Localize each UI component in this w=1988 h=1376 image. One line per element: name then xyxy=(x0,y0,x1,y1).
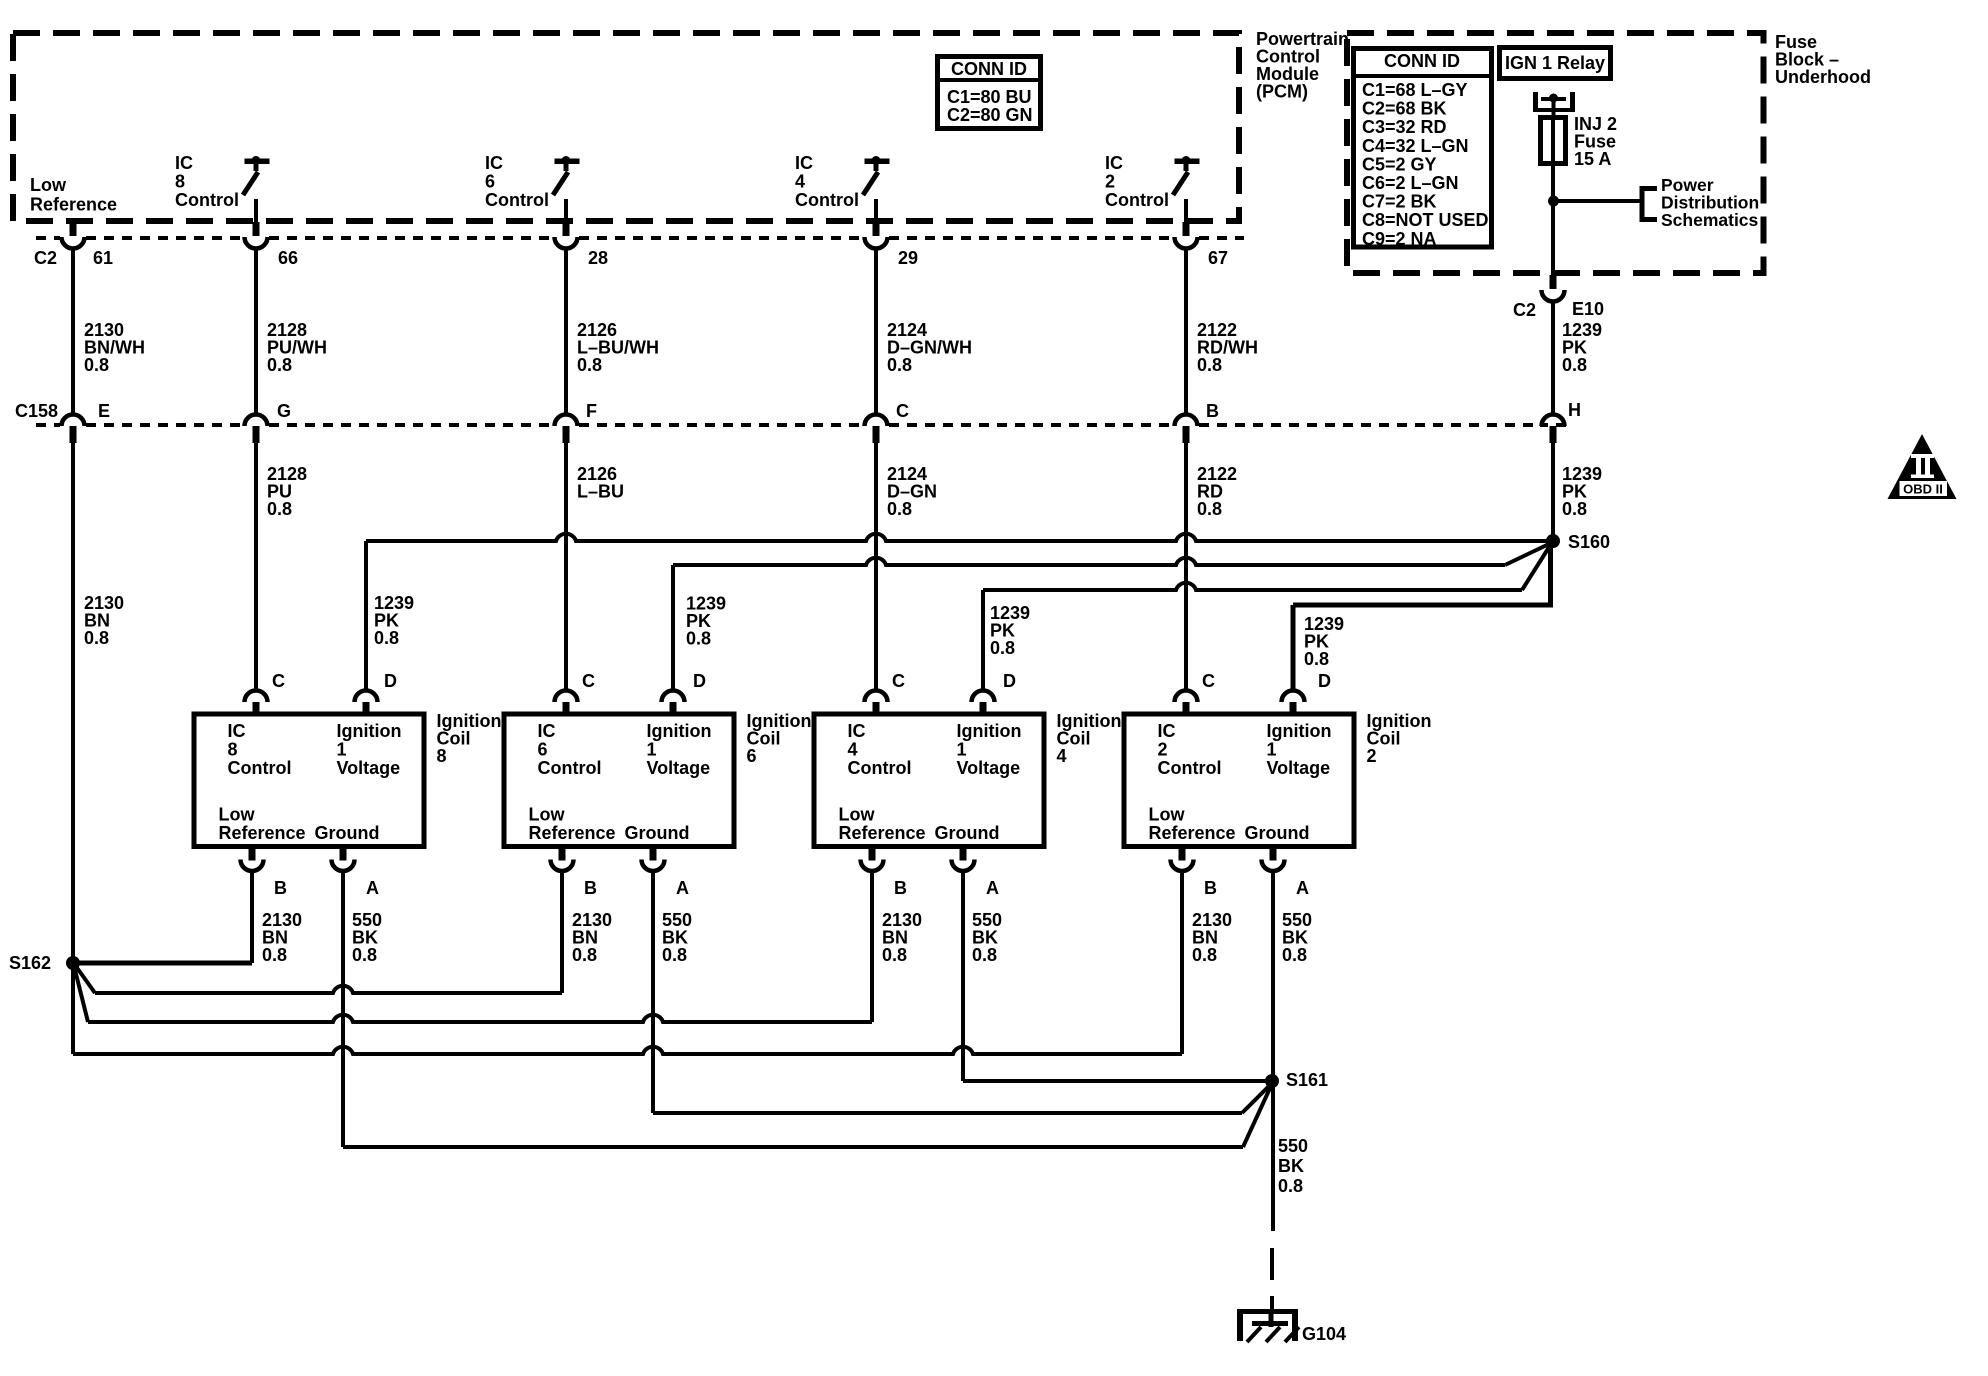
svg-text:IC: IC xyxy=(1105,153,1123,173)
svg-text:S160: S160 xyxy=(1568,532,1610,552)
svg-text:Ground: Ground xyxy=(935,823,1000,843)
svg-text:S162: S162 xyxy=(9,953,51,973)
svg-text:IC: IC xyxy=(485,153,503,173)
svg-text:Ignition: Ignition xyxy=(957,721,1022,741)
svg-text:0.8: 0.8 xyxy=(1197,499,1222,519)
svg-text:6: 6 xyxy=(538,740,548,760)
svg-text:Voltage: Voltage xyxy=(957,758,1021,778)
svg-text:F: F xyxy=(586,401,597,421)
svg-text:IC: IC xyxy=(1158,721,1176,741)
svg-text:1: 1 xyxy=(647,740,657,760)
svg-text:CONN ID: CONN ID xyxy=(1384,51,1460,71)
svg-text:29: 29 xyxy=(898,248,918,268)
svg-text:Control: Control xyxy=(485,190,549,210)
svg-text:C: C xyxy=(582,671,595,691)
svg-text:Ground: Ground xyxy=(625,823,690,843)
svg-text:E10: E10 xyxy=(1572,299,1604,319)
svg-text:C9=2 NA: C9=2 NA xyxy=(1362,229,1437,249)
svg-text:L–BU: L–BU xyxy=(577,482,624,502)
svg-text:15 A: 15 A xyxy=(1574,149,1611,169)
svg-text:C: C xyxy=(896,401,909,421)
svg-text:4: 4 xyxy=(795,172,805,192)
svg-text:C: C xyxy=(892,671,905,691)
svg-text:2: 2 xyxy=(1158,740,1168,760)
svg-text:Control: Control xyxy=(795,190,859,210)
svg-text:C2=80 GN: C2=80 GN xyxy=(947,105,1033,125)
svg-text:Voltage: Voltage xyxy=(647,758,711,778)
svg-text:0.8: 0.8 xyxy=(577,355,602,375)
svg-text:Reference: Reference xyxy=(529,823,616,843)
svg-text:G: G xyxy=(277,401,291,421)
svg-text:6: 6 xyxy=(485,172,495,192)
svg-text:0.8: 0.8 xyxy=(1562,355,1587,375)
svg-text:IC: IC xyxy=(228,721,246,741)
svg-text:0.8: 0.8 xyxy=(882,945,907,965)
svg-text:Low: Low xyxy=(839,805,876,825)
svg-text:Control: Control xyxy=(1158,758,1222,778)
svg-text:Underhood: Underhood xyxy=(1775,67,1871,87)
svg-text:4: 4 xyxy=(1057,746,1067,766)
svg-text:0.8: 0.8 xyxy=(1278,1176,1303,1196)
svg-text:IC: IC xyxy=(848,721,866,741)
svg-text:6: 6 xyxy=(747,746,757,766)
svg-text:C8=NOT USED: C8=NOT USED xyxy=(1362,210,1489,230)
svg-text:0.8: 0.8 xyxy=(267,499,292,519)
svg-text:0.8: 0.8 xyxy=(887,499,912,519)
svg-text:8: 8 xyxy=(175,172,185,192)
svg-text:S161: S161 xyxy=(1286,1070,1328,1090)
svg-text:2: 2 xyxy=(1105,172,1115,192)
svg-text:8: 8 xyxy=(437,746,447,766)
svg-text:Low: Low xyxy=(219,805,256,825)
svg-text:Ignition: Ignition xyxy=(337,721,402,741)
svg-text:Reference: Reference xyxy=(219,823,306,843)
svg-text:Control: Control xyxy=(175,190,239,210)
svg-text:C2: C2 xyxy=(34,248,57,268)
svg-text:0.8: 0.8 xyxy=(262,945,287,965)
svg-text:66: 66 xyxy=(278,248,298,268)
svg-text:G104: G104 xyxy=(1302,1324,1346,1344)
svg-text:C6=2 L–GN: C6=2 L–GN xyxy=(1362,173,1459,193)
svg-text:Control: Control xyxy=(848,758,912,778)
svg-text:Low: Low xyxy=(529,805,566,825)
svg-text:Schematics: Schematics xyxy=(1661,210,1759,230)
svg-text:0.8: 0.8 xyxy=(1197,355,1222,375)
svg-text:Reference: Reference xyxy=(30,195,117,215)
svg-text:8: 8 xyxy=(228,740,238,760)
svg-text:B: B xyxy=(1206,401,1219,421)
svg-text:A: A xyxy=(676,878,689,898)
svg-text:IC: IC xyxy=(538,721,556,741)
svg-text:C1=80 BU: C1=80 BU xyxy=(947,87,1032,107)
svg-text:IGN 1 Relay: IGN 1 Relay xyxy=(1505,53,1605,73)
svg-text:B: B xyxy=(894,878,907,898)
svg-text:E: E xyxy=(98,401,110,421)
svg-text:1: 1 xyxy=(957,740,967,760)
svg-text:A: A xyxy=(366,878,379,898)
svg-text:D: D xyxy=(693,671,706,691)
svg-text:(PCM): (PCM) xyxy=(1256,82,1308,102)
svg-text:28: 28 xyxy=(588,248,608,268)
svg-text:B: B xyxy=(274,878,287,898)
svg-text:550: 550 xyxy=(1278,1136,1308,1156)
svg-text:CONN ID: CONN ID xyxy=(951,59,1027,79)
svg-text:Control: Control xyxy=(538,758,602,778)
svg-text:67: 67 xyxy=(1208,248,1228,268)
svg-text:C1=68 L–GY: C1=68 L–GY xyxy=(1362,80,1468,100)
svg-text:Reference: Reference xyxy=(1149,823,1236,843)
svg-text:C2: C2 xyxy=(1513,300,1536,320)
svg-text:C3=32 RD: C3=32 RD xyxy=(1362,117,1447,137)
svg-text:0.8: 0.8 xyxy=(887,355,912,375)
svg-text:B: B xyxy=(584,878,597,898)
svg-text:Control: Control xyxy=(228,758,292,778)
svg-text:Low: Low xyxy=(1149,805,1186,825)
svg-text:C: C xyxy=(272,671,285,691)
svg-text:1: 1 xyxy=(337,740,347,760)
svg-text:IC: IC xyxy=(175,153,193,173)
svg-text:4: 4 xyxy=(848,740,858,760)
svg-text:Ignition: Ignition xyxy=(1267,721,1332,741)
svg-text:0.8: 0.8 xyxy=(1562,499,1587,519)
svg-text:C2=68 BK: C2=68 BK xyxy=(1362,99,1447,119)
svg-text:B: B xyxy=(1204,878,1217,898)
svg-text:A: A xyxy=(986,878,999,898)
svg-text:C: C xyxy=(1202,671,1215,691)
svg-text:A: A xyxy=(1296,878,1309,898)
svg-text:0.8: 0.8 xyxy=(1304,649,1329,669)
svg-text:Ground: Ground xyxy=(315,823,380,843)
svg-text:Voltage: Voltage xyxy=(337,758,401,778)
svg-text:Ignition: Ignition xyxy=(647,721,712,741)
svg-text:D: D xyxy=(384,671,397,691)
svg-text:D: D xyxy=(1318,671,1331,691)
svg-text:0.8: 0.8 xyxy=(972,945,997,965)
svg-text:Control: Control xyxy=(1105,190,1169,210)
svg-text:0.8: 0.8 xyxy=(686,629,711,649)
svg-text:0.8: 0.8 xyxy=(352,945,377,965)
svg-text:0.8: 0.8 xyxy=(662,945,687,965)
svg-text:H: H xyxy=(1568,400,1581,420)
svg-text:0.8: 0.8 xyxy=(84,355,109,375)
svg-text:IC: IC xyxy=(795,153,813,173)
svg-text:C5=2 GY: C5=2 GY xyxy=(1362,154,1437,174)
svg-text:Voltage: Voltage xyxy=(1267,758,1331,778)
svg-text:C158: C158 xyxy=(15,401,58,421)
svg-text:Reference: Reference xyxy=(839,823,926,843)
svg-text:Low: Low xyxy=(30,175,67,195)
svg-text:0.8: 0.8 xyxy=(1192,945,1217,965)
svg-text:C7=2 BK: C7=2 BK xyxy=(1362,192,1437,212)
svg-text:2: 2 xyxy=(1367,746,1377,766)
svg-text:0.8: 0.8 xyxy=(374,628,399,648)
svg-text:C4=32 L–GN: C4=32 L–GN xyxy=(1362,136,1469,156)
svg-text:0.8: 0.8 xyxy=(990,638,1015,658)
svg-text:0.8: 0.8 xyxy=(267,355,292,375)
svg-text:61: 61 xyxy=(93,248,113,268)
svg-text:D: D xyxy=(1003,671,1016,691)
svg-text:0.8: 0.8 xyxy=(84,628,109,648)
svg-text:1: 1 xyxy=(1267,740,1277,760)
svg-text:OBD II: OBD II xyxy=(1903,482,1943,497)
svg-text:BK: BK xyxy=(1278,1156,1304,1176)
svg-text:Ground: Ground xyxy=(1245,823,1310,843)
svg-text:0.8: 0.8 xyxy=(1282,945,1307,965)
svg-text:0.8: 0.8 xyxy=(572,945,597,965)
